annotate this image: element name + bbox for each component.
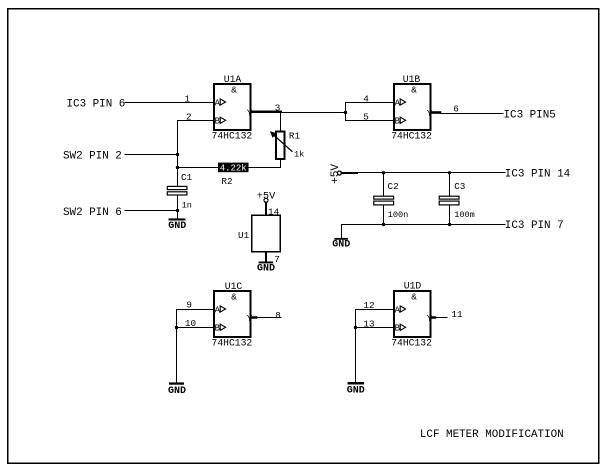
svg-text:GND: GND	[168, 386, 186, 397]
svg-text:&: &	[411, 292, 417, 303]
svg-text:74HC132: 74HC132	[212, 130, 253, 141]
svg-text:LCF METER MODIFICATION: LCF METER MODIFICATION	[420, 429, 564, 441]
svg-text:Y: Y	[427, 108, 433, 119]
svg-text:U1D: U1D	[404, 281, 422, 292]
svg-text:U1: U1	[238, 230, 250, 241]
svg-text:7: 7	[274, 254, 280, 265]
svg-text:B: B	[395, 116, 401, 127]
svg-text:R1: R1	[289, 131, 301, 142]
svg-text:74HC132: 74HC132	[212, 337, 253, 348]
svg-text:R2: R2	[221, 176, 232, 187]
svg-text:U1B: U1B	[403, 74, 421, 85]
svg-text:B: B	[215, 116, 221, 127]
svg-text:A: A	[215, 304, 221, 315]
svg-text:IC3 PIN 14: IC3 PIN 14	[505, 168, 570, 180]
svg-text:74HC132: 74HC132	[391, 337, 432, 348]
svg-text:100m: 100m	[454, 210, 475, 220]
svg-text:Y: Y	[427, 313, 433, 324]
svg-text:74HC132: 74HC132	[391, 130, 432, 141]
svg-text:IC3 PIN5: IC3 PIN5	[504, 109, 556, 121]
svg-text:A: A	[215, 97, 221, 108]
svg-text:GND: GND	[347, 386, 365, 397]
svg-text:GND: GND	[257, 263, 275, 274]
svg-text:100n: 100n	[388, 210, 409, 220]
svg-text:5: 5	[363, 112, 369, 123]
svg-text:+5V: +5V	[330, 164, 342, 184]
svg-text:IC3 PIN 7: IC3 PIN 7	[505, 220, 564, 232]
svg-text:GND: GND	[332, 239, 350, 250]
svg-text:11: 11	[451, 309, 463, 320]
svg-text:13: 13	[363, 318, 374, 329]
svg-text:A: A	[395, 97, 401, 108]
svg-text:B: B	[395, 323, 401, 334]
svg-text:8: 8	[275, 310, 281, 321]
svg-text:12: 12	[363, 300, 374, 311]
svg-text:&: &	[411, 85, 417, 96]
svg-text:Y: Y	[247, 107, 253, 118]
svg-text:+5V: +5V	[257, 191, 276, 203]
svg-text:SW2 PIN 2: SW2 PIN 2	[63, 150, 122, 162]
svg-text:4: 4	[363, 93, 369, 104]
svg-text:10: 10	[185, 318, 196, 329]
svg-text:&: &	[231, 292, 237, 303]
svg-text:Y: Y	[247, 313, 253, 324]
svg-text:U1A: U1A	[224, 74, 242, 85]
svg-text:1k: 1k	[294, 149, 304, 159]
svg-text:C2: C2	[388, 181, 399, 192]
svg-text:C1: C1	[181, 172, 193, 183]
svg-text:B: B	[215, 323, 221, 334]
svg-text:IC3 PIN 6: IC3 PIN 6	[67, 98, 126, 110]
svg-text:4.22k: 4.22k	[220, 164, 247, 174]
svg-text:U1C: U1C	[225, 281, 243, 292]
svg-text:1n: 1n	[182, 201, 192, 211]
svg-text:GND: GND	[168, 221, 186, 232]
svg-text:C3: C3	[454, 181, 465, 192]
svg-text:9: 9	[186, 299, 192, 310]
svg-text:14: 14	[268, 206, 280, 217]
svg-text:1: 1	[185, 94, 191, 105]
svg-text:&: &	[231, 85, 237, 96]
svg-text:A: A	[395, 304, 401, 315]
svg-text:3: 3	[275, 103, 281, 114]
svg-text:2: 2	[186, 112, 192, 123]
svg-text:SW2 PIN 6: SW2 PIN 6	[63, 207, 122, 219]
svg-text:6: 6	[453, 104, 459, 115]
